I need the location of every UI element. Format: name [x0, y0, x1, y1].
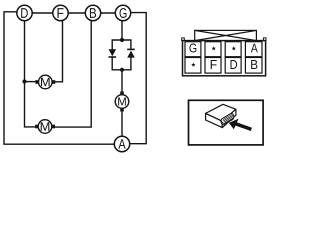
connector latch with X — [195, 30, 257, 40]
pin star bottom 1 — [191, 63, 195, 67]
motor M2 — [35, 120, 55, 134]
wire F drop — [53, 14, 63, 82]
node J2 junction — [120, 38, 124, 42]
motor M1 — [35, 75, 55, 89]
connector tab right — [263, 38, 266, 41]
diode D1 cathode down — [109, 49, 117, 57]
pin star top 3 — [232, 46, 236, 50]
wire diodes to M3 — [121, 70, 123, 95]
connector icon 3d body — [206, 104, 236, 127]
wire G bypass right rail to A — [122, 13, 146, 144]
pin label B — [251, 60, 257, 69]
arrow pointer — [229, 119, 252, 131]
connector tab left — [182, 38, 185, 41]
pin label A — [251, 44, 258, 53]
pin star top 2 — [212, 46, 216, 50]
connector outer box — [183, 41, 266, 76]
wire left rail D to A — [4, 12, 122, 144]
pin label D — [231, 60, 238, 69]
wire G drop — [121, 14, 123, 40]
diode D2 cathode up — [127, 49, 135, 57]
pin label F — [211, 60, 217, 69]
terminal G — [115, 5, 130, 20]
wire M1 branch — [25, 81, 39, 83]
terminal F — [53, 5, 68, 20]
wire D drop — [25, 13, 39, 127]
connector cells row 2 — [185, 58, 262, 74]
wire M3 to A — [121, 108, 123, 137]
connector icon socket — [220, 113, 236, 126]
node J1 junction — [22, 79, 26, 83]
wire B drop — [52, 14, 91, 127]
icon box frame — [189, 100, 264, 145]
wire diode right branch — [122, 40, 131, 70]
terminal A — [114, 136, 129, 151]
connector cells row 1 — [185, 42, 262, 57]
terminal D — [17, 5, 32, 20]
pin label G — [189, 44, 196, 53]
terminal B — [85, 5, 100, 20]
motor M3 — [115, 92, 129, 112]
wire diode left branch — [112, 40, 122, 70]
node J3 junction — [120, 68, 124, 72]
wire top bus D-F-B-G — [25, 12, 124, 14]
